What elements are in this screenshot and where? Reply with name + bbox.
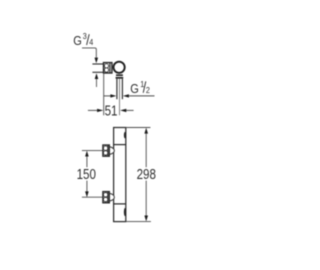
leader line from G3/4 with down arrow (82, 48, 98, 63)
bottom cap shading crescent (124, 208, 127, 216)
top cap shading crescent (124, 132, 127, 138)
svg-text:2: 2 (146, 85, 150, 95)
label G1/2 (130, 79, 150, 96)
svg-text:1: 1 (140, 79, 144, 89)
top bracket ext line (82, 150, 103, 152)
bottom bracket nut (103, 192, 109, 203)
extension line top (298) (126, 127, 151, 129)
bottom bracket dome (109, 193, 114, 201)
pipe axis extension line (119, 79, 121, 116)
wall plane extension line (103, 73, 105, 115)
collar below elbow (116, 74, 124, 78)
ball elbow circle (114, 62, 125, 73)
extension line bottom (298) (126, 221, 151, 223)
dimension line 298 (144, 128, 148, 222)
union nut (wall flange) (104, 63, 112, 73)
bottom bracket ext line (82, 196, 103, 198)
svg-text:4: 4 (89, 38, 94, 48)
body bottom cap divider (114, 203, 126, 205)
svg-text:G: G (73, 33, 82, 48)
svg-text:51: 51 (105, 102, 118, 119)
body top cap divider (114, 144, 126, 146)
svg-text:G: G (130, 81, 139, 96)
svg-text:150: 150 (77, 166, 96, 183)
svg-text:3: 3 (83, 32, 88, 42)
label G3/4 (73, 32, 94, 49)
top bracket nut (103, 145, 109, 156)
dimension 51 arrows (88, 109, 134, 112)
G1/2 arrows at pipe (104, 94, 155, 97)
pipe (117, 79, 123, 100)
top bracket dome (109, 147, 114, 155)
thermostat body outline (114, 128, 126, 222)
svg-text:298: 298 (137, 166, 156, 183)
dimension line 150 (85, 151, 89, 198)
G3/4 thread stub lines (92, 64, 103, 72)
up arrow pointing at thread bottom (95, 73, 99, 87)
